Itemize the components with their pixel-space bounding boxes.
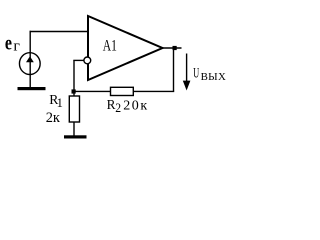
svg-text:e: e: [5, 32, 12, 54]
wire: feedback vertical up to output node: [173, 48, 175, 91]
svg-text:A1: A1: [103, 38, 117, 55]
inverting input bubble: [84, 57, 91, 64]
svg-text:20к: 20к: [123, 98, 149, 113]
wire: feedback node vertical down to R1: [73, 60, 75, 96]
ground (below R1): [64, 135, 87, 138]
output voltage arrowhead: [183, 81, 191, 91]
svg-text:ВЫХ: ВЫХ: [201, 71, 227, 83]
node junction (R1 / R2 / inverting input): [72, 89, 76, 93]
svg-text:г: г: [13, 38, 20, 54]
svg-text:U: U: [193, 64, 199, 81]
source e_г arrowhead: [26, 56, 34, 62]
resistor R2 body: [111, 87, 134, 95]
source e_г (circle): [19, 53, 40, 75]
wire: junction to R2 left: [74, 90, 111, 92]
wire: op-amp output: [163, 47, 182, 49]
wire: source vertical (through source symbol to ground): [29, 31, 31, 88]
wire: R2 right to output vertical: [133, 90, 174, 92]
resistor R1 body: [69, 96, 79, 122]
node junction (output): [173, 46, 177, 50]
wire: source top to op-amp noninverting input: [30, 31, 89, 33]
wire: R1 bottom to ground: [73, 122, 75, 136]
ground (below source): [18, 87, 46, 90]
op-amp U1 triangle: [88, 16, 163, 80]
svg-text:1: 1: [57, 96, 63, 110]
wire: feedback node to inverting input bubble: [73, 59, 84, 61]
svg-text:2: 2: [115, 100, 121, 115]
output voltage arrow shaft: [186, 54, 188, 84]
svg-text:2к: 2к: [46, 110, 61, 126]
